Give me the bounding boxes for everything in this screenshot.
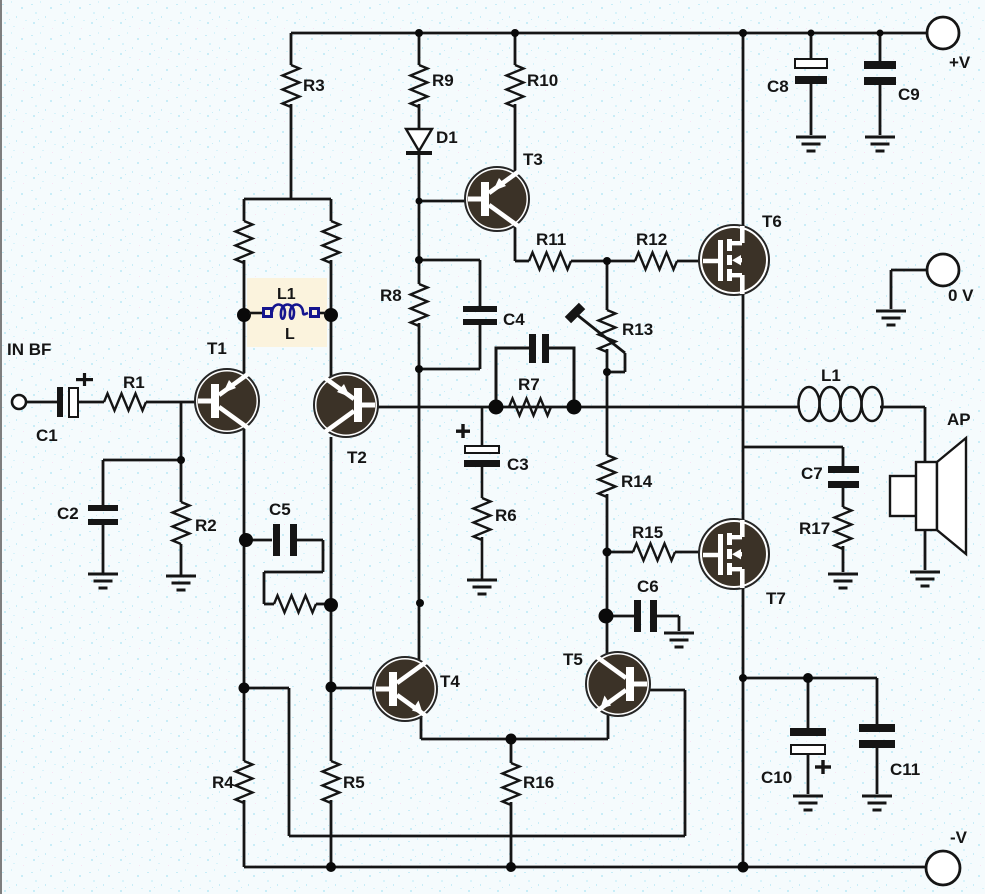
svg-text:C10: C10: [761, 768, 792, 787]
svg-text:C1: C1: [36, 426, 58, 445]
svg-text:R3: R3: [303, 76, 325, 95]
svg-text:R4: R4: [212, 773, 234, 792]
svg-text:T6: T6: [762, 212, 782, 231]
svg-text:R10: R10: [527, 71, 558, 90]
svg-text:C2: C2: [57, 504, 79, 523]
svg-text:L: L: [285, 326, 295, 343]
svg-text:T2: T2: [347, 448, 367, 467]
svg-text:IN BF: IN BF: [7, 340, 51, 359]
svg-text:T7: T7: [766, 589, 786, 608]
svg-text:R14: R14: [621, 472, 653, 491]
svg-text:R5: R5: [343, 773, 365, 792]
svg-text:R1: R1: [123, 373, 145, 392]
svg-text:R17: R17: [799, 519, 830, 538]
svg-text:R16: R16: [523, 773, 554, 792]
svg-text:-V: -V: [950, 828, 968, 847]
svg-text:C4: C4: [503, 310, 525, 329]
svg-text:R13: R13: [622, 320, 653, 339]
svg-text:C9: C9: [898, 85, 920, 104]
svg-text:R2: R2: [195, 516, 217, 535]
svg-text:C6: C6: [637, 577, 659, 596]
svg-text:R8: R8: [380, 286, 402, 305]
svg-text:D1: D1: [436, 128, 458, 147]
svg-text:C3: C3: [507, 455, 529, 474]
svg-text:0 V: 0 V: [948, 286, 974, 305]
svg-text:R7: R7: [518, 375, 540, 394]
svg-text:R9: R9: [432, 71, 454, 90]
svg-text:C5: C5: [269, 500, 291, 519]
svg-text:T3: T3: [523, 150, 543, 169]
svg-text:C8: C8: [767, 77, 789, 96]
svg-text:R11: R11: [536, 230, 566, 249]
svg-text:R12: R12: [636, 230, 667, 249]
svg-text:AP: AP: [947, 410, 971, 429]
svg-text:T1: T1: [207, 339, 227, 358]
svg-text:T4: T4: [440, 672, 460, 691]
svg-text:T5: T5: [563, 650, 583, 669]
svg-text:L1: L1: [277, 286, 296, 303]
svg-text:L1: L1: [821, 366, 841, 385]
svg-text:C11: C11: [890, 760, 920, 779]
svg-text:C7: C7: [801, 464, 823, 483]
svg-text:+V: +V: [949, 53, 971, 72]
svg-text:R6: R6: [495, 506, 517, 525]
svg-text:R15: R15: [632, 523, 663, 542]
